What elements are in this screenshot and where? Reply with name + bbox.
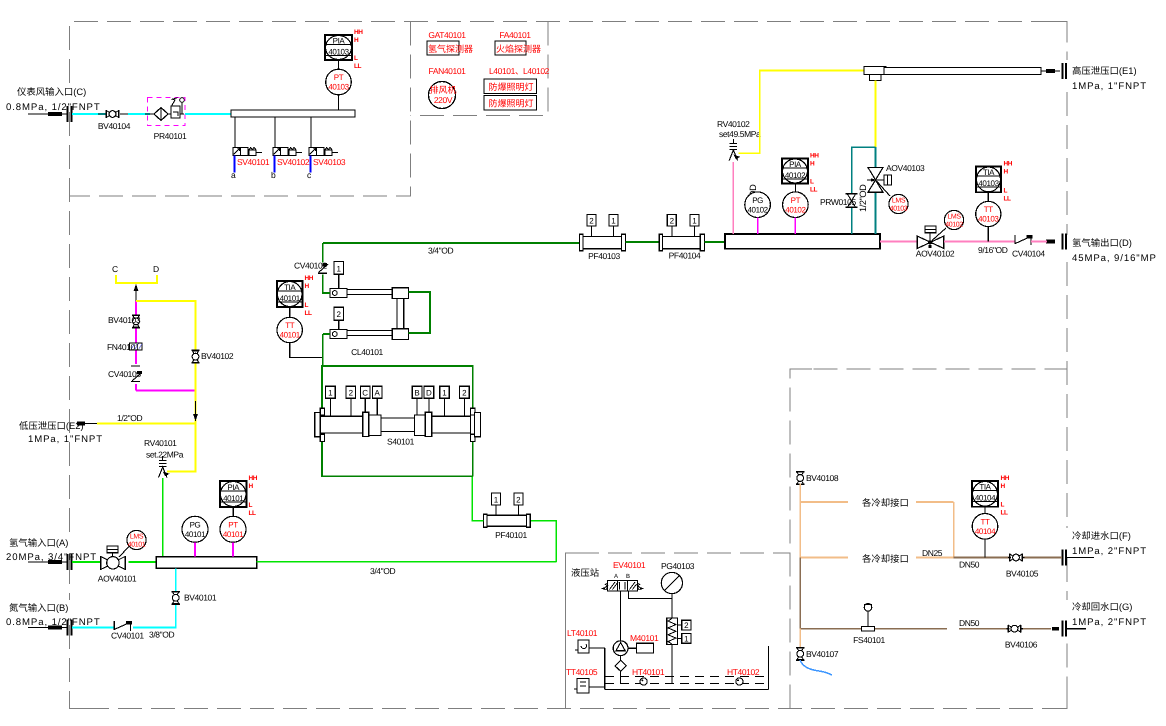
wire pink CV40104 to port D [1031, 241, 1047, 243]
wire green port A to AOV40101 [72, 561, 101, 563]
svg-text:SV40102: SV40102 [277, 157, 310, 167]
svg-text:AOV40101: AOV40101 [98, 574, 137, 584]
wire green compressor lower envelope [322, 442, 472, 477]
label RV40101 set.22MPa [144, 438, 184, 460]
wire TT40104 probe to pipe [984, 539, 986, 557]
needle valve PRW0105 [820, 194, 858, 208]
port E1 label 高压泄压口(E1) [1072, 65, 1147, 92]
control valve AOV40102 [916, 226, 955, 258]
wire brown cooling inlet line DN50 [954, 557, 1062, 559]
instrument PIA40102 [782, 153, 819, 194]
port B label 氮气输入口(B) [6, 602, 101, 628]
wire magenta PT40102 drop [794, 218, 796, 235]
wire green cooler U-loop [409, 292, 431, 333]
svg-text:D: D [153, 264, 159, 274]
wire green PF40103 to PF40104 [626, 241, 660, 243]
svg-text:220V: 220V [434, 95, 453, 105]
port tag 1 on S40101 [326, 386, 336, 416]
svg-text:9/16"OD: 9/16"OD [978, 245, 1008, 255]
temperature transmitter TT40105 [574, 679, 605, 694]
svg-text:RV40101: RV40101 [144, 438, 177, 448]
valve BV40107 [796, 648, 839, 661]
port tag A on S40101 [372, 386, 382, 415]
svg-text:高压泄压口(E1): 高压泄压口(E1) [1072, 65, 1137, 76]
svg-text:氢气输入口(A): 氢气输入口(A) [9, 537, 68, 548]
control valve AOV40103 [867, 163, 925, 192]
transmitter PT40101 [220, 516, 246, 542]
wire magenta vent collection vertical [136, 301, 196, 391]
flow switch FS40101 [853, 604, 885, 646]
wire TIA40103 to TT40103 [987, 192, 989, 201]
svg-text:冷却回水口(G): 冷却回水口(G) [1072, 601, 1132, 612]
svg-text:1/2"OD: 1/2"OD [858, 184, 868, 212]
svg-text:DN50: DN50 [959, 618, 980, 628]
wire EV40101 A-port to pump [620, 591, 622, 641]
svg-text:3/4"OD: 3/4"OD [428, 246, 453, 256]
port tag D on S40101 [424, 386, 434, 412]
svg-text:BV40107: BV40107 [806, 649, 839, 659]
wire green CV40102 to discharge line [322, 243, 324, 263]
instrument-air area partition dashed lines [70, 22, 411, 197]
wire orange drain stub [799, 629, 801, 648]
svg-text:40101: 40101 [280, 294, 301, 303]
svg-text:CV40101: CV40101 [111, 631, 144, 641]
svg-text:PG40103: PG40103 [661, 561, 695, 571]
svg-text:L: L [249, 502, 253, 509]
svg-text:AOV40103: AOV40103 [886, 163, 925, 173]
wire green RV40101 to suction manifold [162, 478, 164, 557]
port C inlet flange [28, 106, 72, 122]
wire drop to SV40101 [234, 117, 236, 148]
svg-text:40101: 40101 [223, 530, 244, 539]
port D label 氢气输出口(D) [1072, 237, 1157, 264]
port G label 冷却回水口(G) [1072, 601, 1147, 628]
gauge PG40101 [182, 516, 208, 542]
svg-text:LMS: LMS [947, 214, 961, 221]
limit switch LMS40103 [877, 181, 909, 214]
wire pink RV40102 to HP manifold [732, 162, 734, 234]
wire gauge riser to oil cooler [671, 594, 673, 618]
svg-text:HH: HH [1004, 161, 1013, 168]
svg-text:1/2"OD: 1/2"OD [117, 413, 142, 423]
svg-text:PIA: PIA [227, 483, 240, 492]
wire yellow C-D bracket [116, 275, 157, 283]
svg-text:2: 2 [589, 217, 594, 226]
svg-text:1: 1 [494, 495, 499, 504]
wire EV40101 B-port to gauge riser [629, 591, 672, 599]
svg-text:1: 1 [692, 217, 697, 226]
svg-text:PT: PT [228, 521, 238, 530]
wire PT40103 to air manifold [338, 95, 340, 110]
wire orange cooling supply header [800, 484, 954, 558]
port B inlet flange [28, 620, 72, 636]
filter PF40103 [580, 214, 626, 261]
svg-text:PF40101: PF40101 [495, 530, 527, 540]
svg-text:TT40105: TT40105 [566, 667, 598, 677]
air header manifold [231, 110, 355, 117]
svg-text:TT: TT [984, 205, 993, 214]
svg-text:L: L [354, 55, 358, 62]
svg-text:HH: HH [305, 275, 314, 282]
transmitter TT40103 [976, 201, 1001, 226]
wire PIA40102 to PT40102 [794, 184, 796, 192]
svg-text:PR40101: PR40101 [154, 131, 187, 141]
wire cyan BV40101 to suction manifold [175, 568, 177, 591]
svg-text:40103: 40103 [978, 215, 999, 224]
svg-text:40101: 40101 [128, 542, 146, 549]
valve BV40101 [172, 592, 217, 605]
svg-text:RV40102: RV40102 [717, 119, 750, 129]
motor M40101 [628, 643, 653, 653]
svg-text:LL: LL [810, 187, 817, 194]
wire drop to SV40102 [274, 117, 276, 148]
svg-text:40101: 40101 [223, 494, 244, 503]
check valve CV40105 [108, 366, 142, 382]
explosion-proof light L40101 防爆照明灯 [484, 79, 537, 94]
valve BV40102 [191, 350, 233, 363]
svg-text:45MPa, 9/16"MP: 45MPa, 9/16"MP [1072, 253, 1157, 264]
svg-text:1MPa, 2"FNPT: 1MPa, 2"FNPT [1072, 546, 1147, 557]
svg-text:液压站: 液压站 [571, 567, 599, 578]
svg-text:HT40102: HT40102 [727, 667, 760, 677]
valve BV40108 [796, 472, 839, 485]
wire yellow LP vent header 1/2"OD [97, 424, 196, 472]
svg-text:40102: 40102 [785, 206, 806, 215]
port G flange [1052, 621, 1086, 637]
svg-text:DN25: DN25 [922, 548, 943, 558]
port tag 2 on oil cooler [678, 620, 691, 630]
wire TIA40104 to TT40104 [984, 507, 986, 514]
port tag 2b on S40101 [460, 386, 470, 416]
wire yellow from magenta junction to BV40102 branch [136, 301, 196, 424]
wire cyan nitrogen from port B [72, 627, 114, 629]
port tag 1b on S40101 [440, 386, 450, 416]
svg-text:2: 2 [336, 310, 341, 319]
svg-text:HH: HH [354, 29, 363, 36]
solenoid valve SV40101 [231, 148, 270, 181]
svg-text:40103: 40103 [328, 83, 349, 92]
svg-text:HH: HH [249, 475, 258, 482]
HP manifold bar [725, 234, 880, 249]
svg-text:3/4"OD: 3/4"OD [370, 566, 395, 576]
gauge PG40103 [661, 572, 682, 593]
oil cooler coil [667, 618, 678, 645]
svg-text:FA40101: FA40101 [499, 30, 531, 40]
svg-text:1: 1 [611, 217, 616, 226]
svg-text:1MPa, 1"FNPT: 1MPa, 1"FNPT [1072, 81, 1147, 92]
instrument PIA40101 [220, 475, 258, 517]
vent header tee fitting [864, 67, 886, 81]
wire yellow RV40102 discharge to vent header [739, 71, 865, 154]
hydrogen detector 氢气探测器 [427, 41, 473, 55]
svg-text:HT40101: HT40101 [632, 667, 665, 677]
wire green PF40104 to HP manifold [704, 241, 725, 243]
heater HT40102 [736, 678, 743, 685]
svg-text:冷却进水口(F): 冷却进水口(F) [1072, 530, 1131, 541]
wire pink AOV40102 to CV40104 [944, 241, 1015, 243]
oil tank [605, 646, 769, 690]
drain hose curve [800, 660, 832, 675]
svg-text:B: B [414, 389, 419, 398]
cooler CL40101 [330, 288, 409, 357]
level transmitter LT40101 [575, 640, 605, 653]
limit switch LMS40101 [119, 530, 146, 557]
svg-text:CV40104: CV40104 [1012, 249, 1045, 259]
svg-text:TIA: TIA [983, 168, 995, 177]
svg-text:40103: 40103 [890, 206, 908, 213]
port tag B on S40101 [412, 386, 422, 415]
svg-text:仪表风输入口(C): 仪表风输入口(C) [17, 86, 86, 97]
svg-text:PIA: PIA [789, 160, 802, 169]
svg-text:set.22MPa: set.22MPa [146, 450, 184, 460]
wire green out of cooler lower pass [323, 333, 330, 335]
port E1 outlet flange [1041, 63, 1066, 79]
svg-text:1: 1 [328, 389, 333, 398]
svg-text:BV40106: BV40106 [1005, 640, 1038, 650]
port E2 connection stub [77, 422, 97, 426]
wire cyan BV40104 to PR40101 [128, 113, 150, 115]
port F flange [1063, 550, 1095, 566]
svg-text:氢气输出口(D): 氢气输出口(D) [1072, 237, 1132, 248]
wire TIA40101 to TT40101 [289, 307, 291, 318]
cooling section box dashed border [790, 369, 1067, 709]
filter PF40104 [659, 214, 704, 260]
wire instrument air cyan from port C to BV40104 [72, 113, 106, 115]
svg-text:2: 2 [684, 621, 689, 630]
instrument TIA40101 [277, 275, 314, 317]
svg-text:3/8"OD: 3/8"OD [149, 630, 174, 640]
transmitter PT40102 [783, 192, 809, 218]
port A inlet flange [28, 554, 72, 570]
svg-text:火焰探测器: 火焰探测器 [496, 44, 541, 54]
svg-text:BV40108: BV40108 [806, 473, 839, 483]
svg-text:氢气探测器: 氢气探测器 [428, 44, 473, 54]
svg-text:PF40103: PF40103 [588, 251, 620, 261]
wire TT40101 probe to suction pipe [290, 343, 322, 358]
solenoid valve SV40103 [307, 148, 346, 181]
svg-text:LMS: LMS [892, 198, 906, 205]
svg-text:40103: 40103 [328, 48, 349, 57]
port tag C on S40101 [360, 386, 370, 412]
suction filter strainer [615, 656, 626, 684]
wire green into cooler upper pass [323, 275, 330, 294]
port tag 2 on S40101 [346, 386, 356, 416]
wire drop to SV40103 [310, 117, 312, 148]
wire green right-end suction drop [472, 442, 474, 477]
svg-text:A: A [614, 573, 618, 580]
port E2 label 低压泄压口(E2) [19, 420, 103, 445]
wire yellow tee down to AOV40103 branch [875, 81, 877, 148]
svg-text:低压泄压口(E2): 低压泄压口(E2) [19, 420, 84, 431]
svg-text:BV40103: BV40103 [108, 315, 141, 325]
wire oil cooler to tank [671, 645, 673, 685]
port D outlet flange [1046, 234, 1066, 250]
wire magenta PT40101 drop [232, 542, 234, 556]
svg-text:2: 2 [349, 389, 354, 398]
svg-text:LL: LL [249, 510, 256, 517]
relief valve RV40101 [159, 456, 170, 478]
svg-text:FAN40101: FAN40101 [429, 66, 467, 76]
valve BV40106 [1005, 625, 1038, 650]
svg-text:BV40105: BV40105 [1006, 569, 1039, 579]
valve BV40105 [1006, 554, 1039, 579]
svg-text:各冷却接口: 各冷却接口 [862, 553, 909, 564]
svg-text:FN40101: FN40101 [107, 342, 140, 352]
transmitter TT40101 [277, 317, 302, 342]
flame arrestor FN40101 [107, 342, 142, 352]
wire PIA40103 to PT40103 [338, 60, 340, 70]
wire arrow up to C-D bracket [134, 284, 139, 301]
wire cyan CV40101 to BV40101 riser [133, 605, 176, 628]
wire pink HP manifold to AOV40102 [880, 241, 917, 243]
svg-text:M40101: M40101 [630, 633, 659, 643]
wire green upper distribution [322, 366, 473, 409]
svg-text:HH: HH [810, 153, 819, 160]
svg-text:TIA: TIA [284, 283, 296, 292]
relief valve RV40102 [729, 139, 740, 161]
wire PIA40101 to PT40101 [232, 507, 234, 517]
svg-text:PG: PG [190, 521, 201, 530]
svg-text:A: A [375, 389, 381, 398]
svg-text:D: D [426, 389, 432, 398]
svg-text:HH: HH [1001, 475, 1010, 482]
svg-text:排风机: 排风机 [429, 85, 456, 95]
svg-text:防爆照明灯: 防爆照明灯 [488, 82, 533, 92]
svg-text:0.8MPa, 1/2"FNPT: 0.8MPa, 1/2"FNPT [6, 102, 101, 113]
compressor S40101 [315, 408, 481, 446]
svg-text:40102: 40102 [785, 171, 806, 180]
port tag 1 on oil cooler [678, 634, 691, 644]
svg-text:LL: LL [305, 310, 312, 317]
svg-text:PG: PG [752, 196, 763, 205]
instrument PIA40103 [325, 29, 363, 70]
svg-text:40102: 40102 [945, 222, 963, 229]
svg-text:1: 1 [336, 264, 341, 273]
check valve CV40102 [294, 261, 328, 274]
valve BV40103 [108, 315, 141, 328]
svg-text:1: 1 [684, 634, 689, 643]
svg-text:PT: PT [334, 73, 344, 82]
svg-text:CL40101: CL40101 [351, 347, 383, 357]
wire green PF40101 up to compressor [472, 476, 483, 520]
instrument TIA40104 [972, 475, 1010, 517]
svg-text:BV40104: BV40104 [98, 121, 131, 131]
filter PF40101 [484, 493, 531, 540]
port tag 2 on CL40101 [334, 307, 344, 329]
svg-text:set49.5MPa: set49.5MPa [719, 129, 761, 139]
svg-text:防爆照明灯: 防爆照明灯 [488, 99, 533, 109]
wire magenta PG40101 drop [194, 542, 196, 556]
svg-text:BV40101: BV40101 [184, 593, 217, 603]
svg-text:2: 2 [670, 217, 675, 226]
svg-text:氮气输入口(B): 氮气输入口(B) [9, 602, 68, 613]
transmitter TT40104 [972, 514, 998, 540]
filter-regulator PR40101 [145, 98, 187, 142]
svg-text:TT: TT [981, 518, 990, 527]
transmitter PT40103 [326, 69, 352, 95]
svg-text:40104: 40104 [975, 494, 996, 503]
svg-text:40101: 40101 [185, 530, 206, 539]
check valve CV40104 [1012, 235, 1045, 259]
detector legend box dashed lines [411, 22, 549, 116]
svg-text:LL: LL [1004, 195, 1011, 202]
svg-text:PIA: PIA [333, 37, 346, 46]
wire cyan PR40101 to air manifold [185, 113, 231, 115]
svg-text:FS40101: FS40101 [853, 635, 885, 645]
instrument TIA40103 [976, 161, 1013, 203]
port tag 1 on CL40101 [334, 262, 344, 289]
svg-text:TT: TT [285, 321, 294, 330]
directional valve EV40101 [601, 573, 644, 591]
pump P40101 [613, 641, 628, 656]
svg-text:TIA: TIA [979, 483, 991, 492]
svg-text:L: L [305, 302, 309, 309]
svg-text:L: L [810, 179, 814, 186]
svg-text:DN50: DN50 [959, 560, 980, 570]
wire green riser to PF40101 [531, 521, 557, 562]
suction manifold bar [156, 557, 256, 569]
svg-text:40101: 40101 [280, 331, 301, 340]
svg-text:PF40104: PF40104 [669, 251, 701, 261]
svg-text:各冷却接口: 各冷却接口 [862, 497, 909, 508]
solenoid valve SV40102 [271, 148, 310, 181]
svg-text:LT40101: LT40101 [567, 628, 598, 638]
wire magenta PG40102 drop [757, 218, 759, 235]
exhaust fan 排风机 220V [429, 82, 457, 109]
svg-text:CV40105: CV40105 [108, 369, 141, 379]
hydraulic station box dashed border [566, 553, 791, 709]
control valve AOV40101 [98, 546, 137, 584]
wire green discharge 3/4"OD to PF40103 [323, 242, 580, 244]
svg-text:PT: PT [791, 196, 801, 205]
svg-text:40103: 40103 [978, 179, 999, 188]
svg-text:a: a [231, 170, 236, 180]
svg-text:EV40101: EV40101 [613, 560, 646, 570]
svg-text:40102: 40102 [747, 206, 768, 215]
svg-text:AOV40102: AOV40102 [916, 249, 955, 259]
check valve CV40101 [111, 621, 144, 641]
port A label 氢气输入口(A) [6, 537, 97, 563]
svg-text:B: B [626, 573, 630, 580]
valve BV40104 [98, 110, 131, 131]
wire green AOV40101 to suction manifold [129, 561, 157, 563]
wire green from cooler outlet down [322, 334, 324, 366]
svg-text:S40101: S40101 [387, 437, 415, 447]
wire teal vent bypass loop [852, 147, 876, 234]
svg-text:LL: LL [1001, 510, 1008, 517]
limit switch LMS40102 [932, 210, 964, 240]
svg-text:GAT40101: GAT40101 [428, 30, 466, 40]
svg-text:BV40102: BV40102 [201, 351, 234, 361]
svg-text:LL: LL [354, 63, 361, 70]
wire green suction main 3/4"OD [257, 561, 557, 563]
svg-text:40104: 40104 [975, 527, 996, 536]
label RV40102 set49.5MPa [717, 119, 761, 139]
svg-text:LMS: LMS [130, 534, 144, 541]
svg-text:2: 2 [462, 389, 467, 398]
svg-text:b: b [271, 170, 276, 180]
wire TT40103 probe to pipe [987, 227, 989, 242]
svg-text:L: L [1004, 187, 1008, 194]
svg-text:C: C [362, 389, 368, 398]
vent diffuser bar [884, 68, 1041, 75]
svg-text:L40101、L40102: L40101、L40102 [489, 66, 550, 76]
svg-text:2: 2 [516, 495, 521, 504]
svg-text:1: 1 [442, 389, 447, 398]
svg-text:SV40101: SV40101 [237, 157, 270, 167]
svg-text:SV40103: SV40103 [313, 157, 346, 167]
svg-text:1MPa, 2"FNPT: 1MPa, 2"FNPT [1072, 617, 1147, 628]
